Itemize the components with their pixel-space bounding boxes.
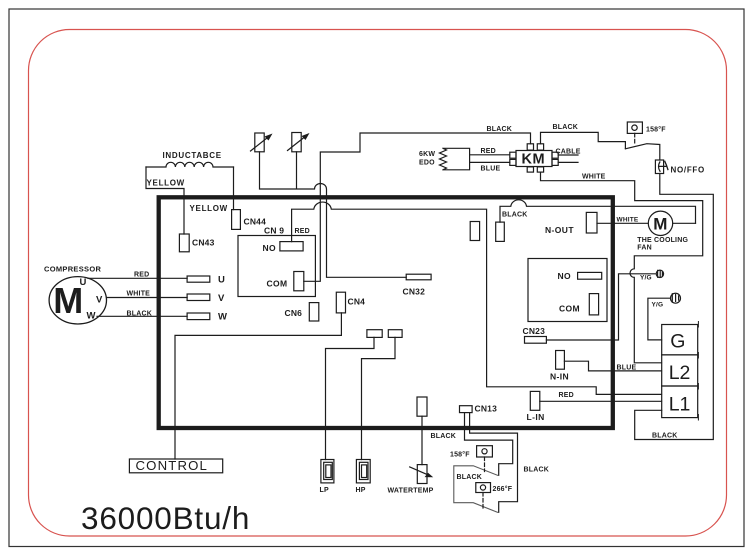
connector spare (470, 222, 479, 241)
svg-text:BLACK: BLACK (524, 467, 550, 474)
wire RED from NO to L1 (292, 202, 662, 394)
svg-text:BLUE: BLUE (617, 364, 637, 371)
svg-text:CN44: CN44 (244, 216, 267, 226)
svg-text:CN6: CN6 (285, 308, 303, 318)
svg-text:CN4: CN4 (348, 296, 366, 306)
svg-text:NO: NO (263, 243, 277, 253)
control board outline (159, 197, 613, 428)
svg-text:RED: RED (559, 392, 574, 399)
earth symbol Y/G 1 (656, 270, 663, 277)
svg-text:U: U (80, 277, 87, 288)
svg-text:RED: RED (134, 272, 149, 279)
wire black KM to 158F switch (541, 132, 626, 148)
connector N-OUT (586, 212, 597, 233)
svg-text:CONTROL: CONTROL (136, 458, 209, 473)
svg-text:YELLOW: YELLOW (190, 204, 228, 213)
relay U2 pin COM (589, 294, 598, 315)
wire BLUE N-IN to L2 (564, 361, 661, 371)
wire RED L-IN to L1 (540, 400, 662, 402)
terminal W (187, 313, 210, 320)
CONTROL box (129, 459, 222, 473)
jumper connector J2 (388, 330, 402, 338)
svg-text:266°F: 266°F (493, 485, 513, 493)
svg-text:U: U (218, 275, 225, 286)
relay U1 pin NO (280, 242, 303, 251)
wire BLACK compressor to W (97, 315, 187, 317)
cable lines from KM (558, 155, 578, 162)
svg-text:CN23: CN23 (523, 326, 546, 336)
svg-text:CN13: CN13 (475, 404, 498, 414)
svg-text:CN32: CN32 (403, 287, 426, 297)
wire earth 2 to terminal G (648, 298, 671, 340)
wire YELLOW left from inductor to CN43 (146, 167, 184, 234)
wire WHITE KM to L2 via fan loop (541, 172, 703, 363)
svg-text:WHITE: WHITE (617, 216, 639, 223)
svg-text:N-OUT: N-OUT (545, 225, 574, 235)
svg-text:WHITE: WHITE (127, 291, 151, 298)
connector CN4 (336, 292, 345, 313)
svg-text:YELLOW: YELLOW (147, 179, 185, 188)
svg-text:LP: LP (320, 487, 329, 494)
svg-text:V: V (96, 295, 103, 306)
connector CN6 (309, 303, 319, 321)
svg-text:BLUE: BLUE (481, 166, 501, 173)
breaker S2 (292, 133, 301, 152)
connector N-IN (556, 351, 565, 370)
connector CN43 (179, 234, 189, 252)
breaker S1 (255, 133, 264, 152)
svg-text:WHITE: WHITE (582, 173, 606, 180)
svg-text:L-IN: L-IN (527, 412, 545, 422)
heater 6KW EDO (440, 148, 470, 170)
jumper connector J1 (367, 330, 382, 338)
motor M the cooling fan (648, 211, 672, 235)
svg-text:FAN: FAN (637, 245, 652, 252)
wire J2 to HP (362, 337, 396, 459)
svg-text:RED: RED (295, 228, 310, 235)
wire NO/FFO to L1 black loop (635, 174, 714, 440)
svg-text:THE COOLING: THE COOLING (637, 237, 688, 244)
svg-text:W: W (218, 312, 227, 323)
svg-text:M: M (653, 214, 667, 233)
wire KM coil black to relay COM (304, 133, 531, 281)
contactor KM (516, 151, 552, 167)
wire CN13 pin1 to 158F plate (465, 413, 513, 476)
svg-text:L2: L2 (669, 362, 691, 384)
connector CN23 (525, 337, 547, 344)
svg-text:BLACK: BLACK (652, 432, 678, 439)
wire CN4 to CONTROL (175, 313, 341, 459)
terminal V (187, 294, 210, 301)
svg-text:36000Btu/h: 36000Btu/h (81, 500, 250, 536)
terminal block ticks (697, 322, 699, 421)
thermostat 158F top (627, 122, 642, 133)
svg-text:Y/G: Y/G (640, 275, 652, 282)
compressor motor M (49, 277, 106, 324)
terminal block L2 (662, 355, 698, 386)
connector L-IN (530, 391, 540, 410)
svg-text:CN 9: CN 9 (264, 226, 284, 236)
switch LP (321, 460, 334, 483)
terminal block G (662, 325, 698, 355)
terminal block L1 (662, 386, 698, 418)
svg-text:EDO: EDO (419, 160, 435, 167)
wire fan feed from BLACK connector to motor (500, 200, 696, 223)
relay U1 pin COM (294, 272, 304, 291)
svg-text:158°F: 158°F (450, 450, 470, 458)
connector CN13 (460, 406, 473, 413)
wire CN23 to earth Y/G (546, 274, 655, 340)
relay U1 box CN9 (238, 236, 315, 297)
relay U2 box (528, 259, 607, 322)
wire from inductor right down to CN44 (233, 167, 235, 210)
svg-text:6KW: 6KW (419, 151, 435, 158)
svg-text:W: W (87, 311, 96, 322)
switch NO/FFO (655, 160, 663, 174)
svg-text:L1: L1 (669, 393, 691, 415)
terminal U (187, 276, 210, 282)
svg-text:BLACK: BLACK (457, 474, 483, 481)
svg-text:COMPRESSOR: COMPRESSOR (44, 265, 101, 274)
svg-text:KM: KM (522, 152, 546, 168)
connector CN32 (406, 274, 431, 280)
inductor (INDUCTABCE) (146, 162, 234, 167)
wire WHITE compressor to V (107, 297, 188, 299)
svg-text:158°F: 158°F (646, 126, 666, 134)
switch HP (356, 460, 370, 483)
connector CN44 (232, 210, 241, 230)
svg-text:COM: COM (267, 278, 288, 288)
svg-text:NO: NO (558, 271, 572, 281)
svg-text:N-IN: N-IN (550, 371, 569, 381)
svg-text:NO/FFO: NO/FFO (671, 165, 705, 174)
svg-text:COM: COM (559, 303, 580, 313)
wire RED EDO to KM (470, 154, 510, 156)
wire CN13 pin2 to 266F plate (470, 413, 518, 513)
svg-text:BLACK: BLACK (431, 433, 457, 440)
wire from breakers to CN32 drop (260, 152, 407, 277)
svg-text:WATERTEMP: WATERTEMP (388, 488, 434, 495)
wire RED compressor to U (88, 277, 187, 279)
svg-text:Y/G: Y/G (652, 301, 664, 308)
earth symbol Y/G 2 (671, 293, 681, 303)
thermostat 158F bottom (477, 446, 493, 457)
sensor WATER TEMP (417, 465, 427, 484)
wire N-OUT to fan motor (597, 222, 696, 224)
thermostat 266F (476, 483, 491, 493)
svg-text:RED: RED (481, 148, 496, 155)
svg-text:BLACK: BLACK (553, 124, 579, 131)
wire BLUE EDO to KM (470, 161, 510, 163)
svg-text:BLACK: BLACK (502, 212, 528, 219)
svg-text:BLACK: BLACK (127, 311, 153, 318)
svg-text:CABLE: CABLE (556, 149, 581, 156)
svg-text:HP: HP (356, 487, 366, 494)
connector BLACK (fan feed) (496, 222, 505, 241)
wire J1 to LP (326, 337, 375, 459)
connector water temp (417, 397, 427, 416)
relay U2 pin NO (578, 272, 602, 279)
wire to water temp sensor (421, 416, 423, 464)
svg-text:INDUCTABCE: INDUCTABCE (163, 151, 222, 160)
svg-text:G: G (670, 331, 685, 353)
heater plate bracket (454, 466, 498, 513)
switch blade to NO/FFO (625, 144, 659, 160)
svg-text:V: V (218, 293, 225, 304)
svg-text:BLACK: BLACK (487, 126, 513, 133)
svg-text:CN43: CN43 (192, 238, 215, 248)
